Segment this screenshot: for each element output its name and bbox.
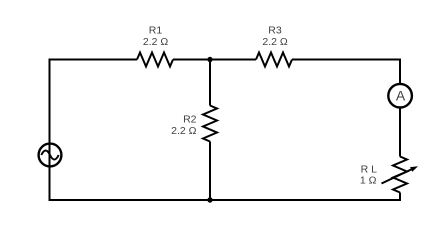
wire left loop (top-left, left side, bottom-left) [50, 60, 211, 201]
wire top right (R3 to ammeter) [292, 60, 400, 85]
svg-text:2.2 Ω: 2.2 Ω [143, 36, 169, 48]
rheostat RL zigzag [393, 157, 407, 193]
svg-text:2.2 Ω: 2.2 Ω [262, 36, 288, 48]
resistor R3 [256, 53, 292, 67]
svg-text:R3: R3 [268, 25, 282, 37]
svg-text:1 Ω: 1 Ω [360, 175, 377, 187]
AC source V1 sine wave [41, 151, 58, 160]
AC source V1 circle [39, 144, 62, 167]
node junction bottom (R2/bottom wire) [207, 197, 212, 202]
ammeter A1 circle [388, 84, 412, 108]
svg-text:2.2 Ω: 2.2 Ω [171, 125, 197, 137]
svg-text:R2: R2 [183, 114, 197, 126]
wire R2 top lead [209, 60, 211, 106]
svg-text:A: A [396, 87, 406, 103]
svg-text:R1: R1 [149, 25, 163, 37]
rheostat RL arrow shaft [382, 169, 414, 184]
resistor R1 [137, 53, 173, 67]
wire bottom right (RL to bottom junction) [210, 193, 400, 201]
node junction top (R1/R2/R3) [207, 57, 212, 62]
wire top middle (between R1 and R3) [173, 59, 256, 61]
rheostat RL arrow head [410, 166, 418, 172]
resistor R2 [203, 106, 217, 142]
wire right middle (ammeter to RL) [399, 108, 401, 157]
wire R2 bottom lead [209, 142, 211, 201]
